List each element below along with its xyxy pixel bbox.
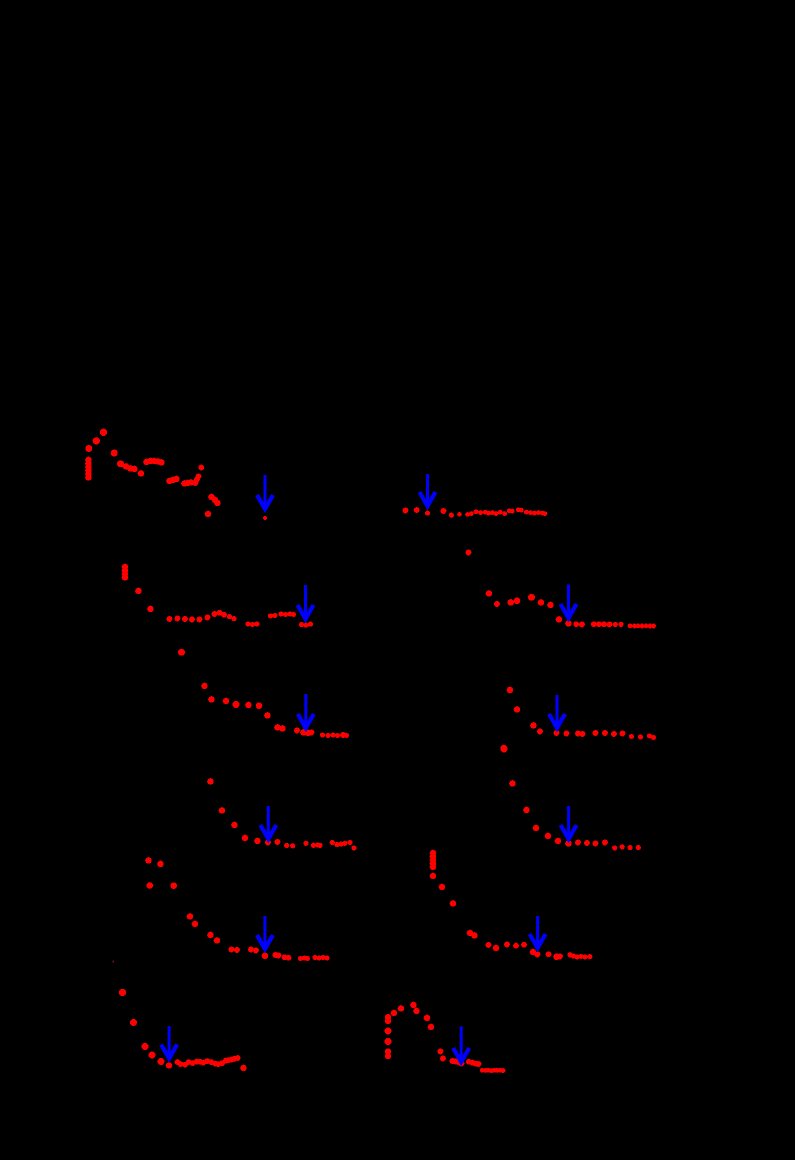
upper-limit arrow panel 2 left: [298, 585, 314, 619]
panel 1 left data points: [85, 429, 267, 521]
upper-limit arrow panel 6 right: [453, 1026, 469, 1062]
upper-limit arrow panel 2 right: [561, 585, 577, 619]
upper-limit arrow panel 5 left: [257, 916, 273, 949]
panel 6 right data points: [385, 1002, 506, 1073]
upper-limit arrow panel 4 left: [260, 806, 276, 839]
panel 4 right data points: [501, 746, 641, 851]
upper-limit arrow panel 6 left: [161, 1026, 177, 1059]
panel 4 left data points: [207, 778, 356, 850]
upper-limit arrow panel 5 right: [530, 916, 546, 948]
panel 2 left data points: [122, 564, 313, 628]
panel 3 right data points: [501, 687, 657, 752]
panel 3 left data points: [178, 649, 349, 738]
faint point panel 6 left: [112, 961, 114, 963]
upper-limit arrow panel 3 left: [298, 694, 314, 728]
panel 5 left data points: [145, 857, 329, 961]
panel 1 right data points: [403, 507, 548, 555]
upper-limit arrow panel 1 left: [257, 475, 273, 509]
panel 5 right data points: [430, 850, 593, 960]
panel 2 right data points: [486, 590, 656, 628]
upper-limit arrow panel 3 right: [549, 695, 565, 728]
upper-limit arrow panel 4 right: [561, 806, 577, 839]
upper-limit arrow panel 1 right: [420, 474, 436, 506]
panel 6 left data points: [119, 989, 247, 1071]
